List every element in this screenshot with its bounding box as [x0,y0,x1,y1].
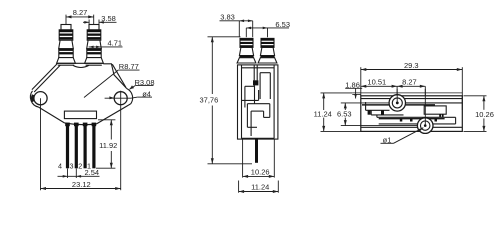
dim 10.26 side [243,140,275,178]
svg-text:10.26: 10.26 [475,110,494,119]
label recess [64,111,96,119]
dim 37.76 (overall height) [200,37,252,164]
svg-text:10.26: 10.26 [251,168,270,177]
mounting hole left [34,92,47,105]
mounting hole right [114,92,127,105]
svg-text:R8.77: R8.77 [119,62,139,71]
dim 11.92 (lead length) [96,120,117,168]
svg-text:ø4: ø4 [142,89,151,98]
port P2 top view [417,118,433,134]
port P2 front view [85,25,104,64]
svg-text:3.83: 3.83 [220,13,235,22]
port P1 side view [237,38,256,63]
svg-text:6.53: 6.53 [275,20,290,29]
svg-text:11.24: 11.24 [251,183,269,192]
dim 3.58 (port nub width) [83,14,117,24]
port P1 top view [389,95,405,111]
svg-text:3.58: 3.58 [101,14,116,23]
svg-text:10.51: 10.51 [367,78,386,87]
top view body outline [352,93,462,131]
svg-text:ø1: ø1 [383,135,392,144]
radius callout R8.77 [84,62,140,97]
svg-text:23.12: 23.12 [72,180,91,189]
dim 2.54 (lead pitch) [58,168,100,178]
dim 10.51 / 8.27 top [361,78,426,96]
svg-text:4.71: 4.71 [107,38,122,47]
dim 3.83 [220,13,253,38]
svg-text:1.86: 1.86 [345,80,360,89]
body top edges front view [57,63,103,67]
svg-text:11.92: 11.92 [99,141,117,150]
diameter callout Ø4 [105,89,152,99]
port P2 side view [258,38,277,63]
dim 6.53 top [337,103,418,126]
right ear outer arc [127,89,133,104]
svg-text:8.27: 8.27 [73,8,88,17]
left ear outer arc [30,91,38,107]
side internal edges [242,65,271,136]
svg-text:29.3: 29.3 [404,61,419,70]
dim 11.24 side [239,181,279,194]
svg-text:6.53: 6.53 [337,110,352,119]
right ear top notch [103,64,127,89]
diameter callout Ø1 [381,128,424,145]
side lead [255,138,258,162]
centerline below right hole [120,91,122,191]
radius callout R3.08 [130,78,155,90]
dim 10.26 top [464,96,494,132]
lead 2 [83,123,88,169]
dim 11.24 top [314,93,361,131]
lead 3 [74,123,79,169]
left ear web fill [31,94,34,102]
callout 1.86 [345,80,362,98]
side body outline [238,65,278,139]
svg-text:4: 4 [58,162,62,171]
svg-text:11.24: 11.24 [314,110,332,119]
dim 29.3 (overall length) [361,61,463,110]
svg-text:3: 3 [70,162,74,171]
pin numbers 4 3 2 1 [58,162,91,171]
dim 23.12 (hole span) [41,180,121,190]
body left shoulder slants [32,64,60,93]
svg-text:8.27: 8.27 [402,78,417,87]
top view internal ledges [362,102,462,124]
port centerline extensions top view [397,89,425,126]
lead 1 [92,123,97,169]
svg-text:37,76: 37,76 [200,95,219,104]
svg-text:2.54: 2.54 [84,168,99,177]
dim 4.71 (port base width) [89,38,123,48]
svg-text:2: 2 [78,162,82,171]
dim 8.27 (port pitch front) [66,8,94,25]
body bottom outline [39,104,131,125]
svg-text:R3.08: R3.08 [134,78,154,87]
centerline below left hole [40,98,42,190]
dim 6.53 side [246,20,290,37]
lead 4 [65,123,70,169]
port P1 front view [57,25,76,64]
